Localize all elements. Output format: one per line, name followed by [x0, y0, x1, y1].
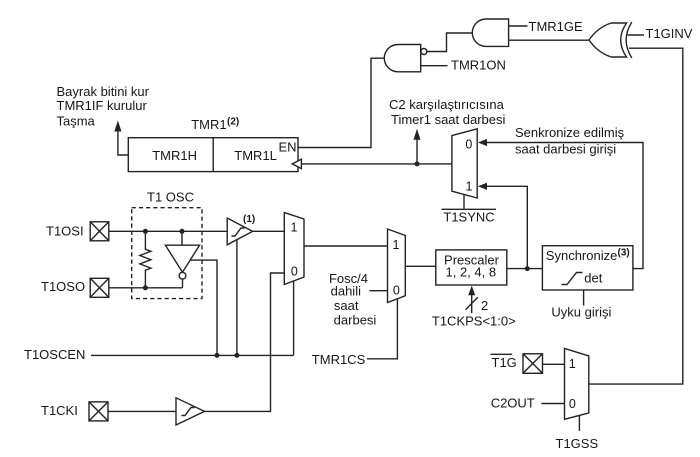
wire mux M1 output to mux M2 input 1: [304, 245, 388, 247]
svg-text:darbesi: darbesi: [334, 313, 377, 328]
mux M4 select wire: [578, 415, 580, 431]
mux M4 (T1GSS): [565, 348, 589, 419]
svg-text:(2): (2): [227, 117, 239, 128]
svg-text:det: det: [584, 271, 602, 286]
T1OSCEN wire: [91, 354, 294, 356]
svg-text:0: 0: [291, 265, 298, 279]
wire prescaler output: [507, 268, 543, 270]
TMR1ON input wire: [421, 65, 448, 67]
svg-text:EN: EN: [279, 139, 297, 154]
svg-text:1: 1: [466, 180, 473, 194]
T1OSI pin box: [90, 222, 109, 241]
resistor R1: [140, 231, 151, 287]
buffer enable wire: [236, 240, 238, 356]
Fosc/4 text: [329, 271, 376, 328]
wire EN from gate output: [298, 58, 385, 147]
wire bubble to AND gate output: [427, 33, 473, 52]
svg-text:TMR1L: TMR1L: [234, 148, 277, 163]
svg-text:T1OSO: T1OSO: [41, 279, 85, 294]
wire Fosc/4 to mux M2 input 0: [370, 290, 388, 292]
svg-text:1: 1: [569, 357, 576, 371]
svg-text:Timer1 saat darbesi: Timer1 saat darbesi: [391, 112, 506, 127]
wire T1CKI to buffer: [108, 410, 176, 412]
wire synchronize output to mux M3 input 0: [487, 143, 644, 269]
svg-text:T1GINV: T1GINV: [646, 26, 693, 41]
TMR1 register box: [128, 138, 298, 172]
svg-text:0: 0: [393, 284, 400, 298]
arrowhead into mux M3 input 1: [478, 183, 487, 190]
junction T1OSCEN/inverter enable: [215, 353, 220, 358]
clock wire from T1SYNC mux to TMR1L: [301, 163, 452, 165]
sleep input wire: [583, 290, 585, 306]
edge detect glyph: [562, 273, 583, 285]
svg-text:Bayrak bitini kur: Bayrak bitini kur: [57, 84, 150, 99]
svg-text:saat darbesi girişi: saat darbesi girişi: [515, 141, 616, 156]
svg-text:T1OSI: T1OSI: [46, 223, 84, 238]
svg-text:C2OUT: C2OUT: [491, 395, 535, 410]
mux M2 select wire: [367, 299, 397, 359]
junction T1OSI/inverter: [180, 229, 185, 234]
wire AND gate to XOR output: [509, 39, 590, 41]
NAND gate U2 (TMR1ON enable, inverted input): [384, 45, 420, 72]
T1CKI pin box: [89, 402, 108, 421]
svg-text:(3): (3): [618, 247, 630, 258]
svg-text:TMR1: TMR1: [191, 117, 226, 132]
svg-text:0: 0: [465, 137, 472, 151]
svg-text:T1SYNC: T1SYNC: [443, 209, 494, 224]
wire junction up to mux M3 input 1: [487, 186, 528, 268]
T1GINV input wire: [628, 34, 645, 36]
svg-text:T1GSS: T1GSS: [556, 436, 599, 451]
T1G pin box: [523, 354, 543, 374]
junction T1OSO/resistor: [143, 285, 148, 290]
wire T1OSO to inverter output: [109, 287, 183, 289]
svg-text:0: 0: [569, 397, 576, 411]
wire buffer to mux M1 input 0: [205, 273, 285, 411]
prescaler box: [436, 250, 507, 285]
AND gate U1 (TMR1GE): [472, 19, 508, 46]
register title TMR1(2): [191, 117, 239, 132]
junction T1OSI/resistor: [143, 229, 148, 234]
synchronized clock text: [515, 125, 625, 156]
svg-text:1: 1: [393, 238, 400, 252]
svg-text:T1 OSC: T1 OSC: [147, 190, 194, 205]
T1OSO pin box: [90, 278, 109, 297]
inverter enable wire: [191, 260, 218, 355]
overflow text: [57, 84, 150, 129]
svg-text:T1G: T1G: [492, 355, 517, 370]
schmitt buffer U6 (T1CKI): [176, 398, 205, 425]
svg-text:TMR1GE: TMR1GE: [529, 19, 584, 34]
mux M1 (T1OSCEN): [284, 213, 304, 285]
svg-text:saat: saat: [334, 298, 359, 313]
overflow arrowhead: [114, 121, 121, 132]
open clock arrowhead at TMR1L: [292, 159, 301, 168]
wire mux M2 output to prescaler: [405, 265, 436, 267]
svg-text:TMR1IF kurulur: TMR1IF kurulur: [57, 98, 148, 113]
mux M3 (T1SYNC): [452, 129, 477, 198]
T1SYNC overline: [442, 208, 497, 210]
T1 OSC dashed box: [132, 208, 202, 299]
svg-text:1: 1: [291, 221, 298, 235]
mux M3 select wire: [463, 194, 465, 208]
wire XOR lower input from T1GSS mux: [589, 48, 683, 384]
overflow wire: [118, 131, 128, 155]
synchronize label: [546, 247, 630, 262]
svg-text:(1): (1): [243, 214, 255, 225]
inverting bubble on gate input: [421, 49, 427, 55]
junction prescaler/T1SYNC mux: [525, 266, 530, 271]
prescaler label: [444, 253, 500, 280]
svg-text:T1CKPS<1:0>: T1CKPS<1:0>: [432, 313, 516, 328]
arrow to C2 comparator: [414, 129, 421, 164]
XOR gate U3 (T1GINV): [589, 22, 632, 58]
wire C2OUT to mux M4 input 0: [541, 403, 564, 405]
svg-text:C2 karşılaştırıcısına: C2 karşılaştırıcısına: [389, 97, 505, 112]
mux M2 (TMR1CS): [388, 229, 406, 303]
junction T1OSCEN/buffer enable: [234, 353, 239, 358]
svg-text:Senkronize edilmiş: Senkronize edilmiş: [515, 125, 625, 140]
svg-text:Synchronize: Synchronize: [546, 248, 618, 263]
inverter U4 (T1 oscillator): [165, 231, 199, 287]
wire T1OSI to buffer: [109, 230, 227, 232]
T1CKPS select arrow: [466, 286, 478, 313]
svg-text:dahili: dahili: [331, 284, 361, 299]
svg-text:TMR1H: TMR1H: [152, 148, 197, 163]
svg-text:TMR1ON: TMR1ON: [451, 57, 506, 72]
TMR1GE input wire: [509, 25, 528, 27]
svg-text:2: 2: [481, 298, 488, 313]
svg-text:Taşma: Taşma: [57, 114, 96, 129]
arrowhead into mux M3 input 0: [478, 139, 487, 146]
schmitt buffer U5 (1): [227, 218, 252, 245]
synchronize box: [542, 246, 633, 290]
mux M1 select wire: [293, 281, 295, 355]
wire T1G to mux M4 input 1: [543, 363, 565, 365]
svg-text:T1CKI: T1CKI: [41, 403, 78, 418]
C2 comparator text: [389, 97, 506, 127]
junction node clock/C2: [415, 161, 420, 166]
T1G overline: [491, 353, 513, 355]
svg-text:TMR1CS: TMR1CS: [312, 352, 366, 367]
svg-text:T1OSCEN: T1OSCEN: [24, 347, 85, 362]
wire buffer to mux M1 input 1: [253, 230, 285, 232]
svg-text:Uyku girişi: Uyku girişi: [551, 304, 611, 319]
svg-text:1, 2, 4, 8: 1, 2, 4, 8: [446, 264, 497, 279]
